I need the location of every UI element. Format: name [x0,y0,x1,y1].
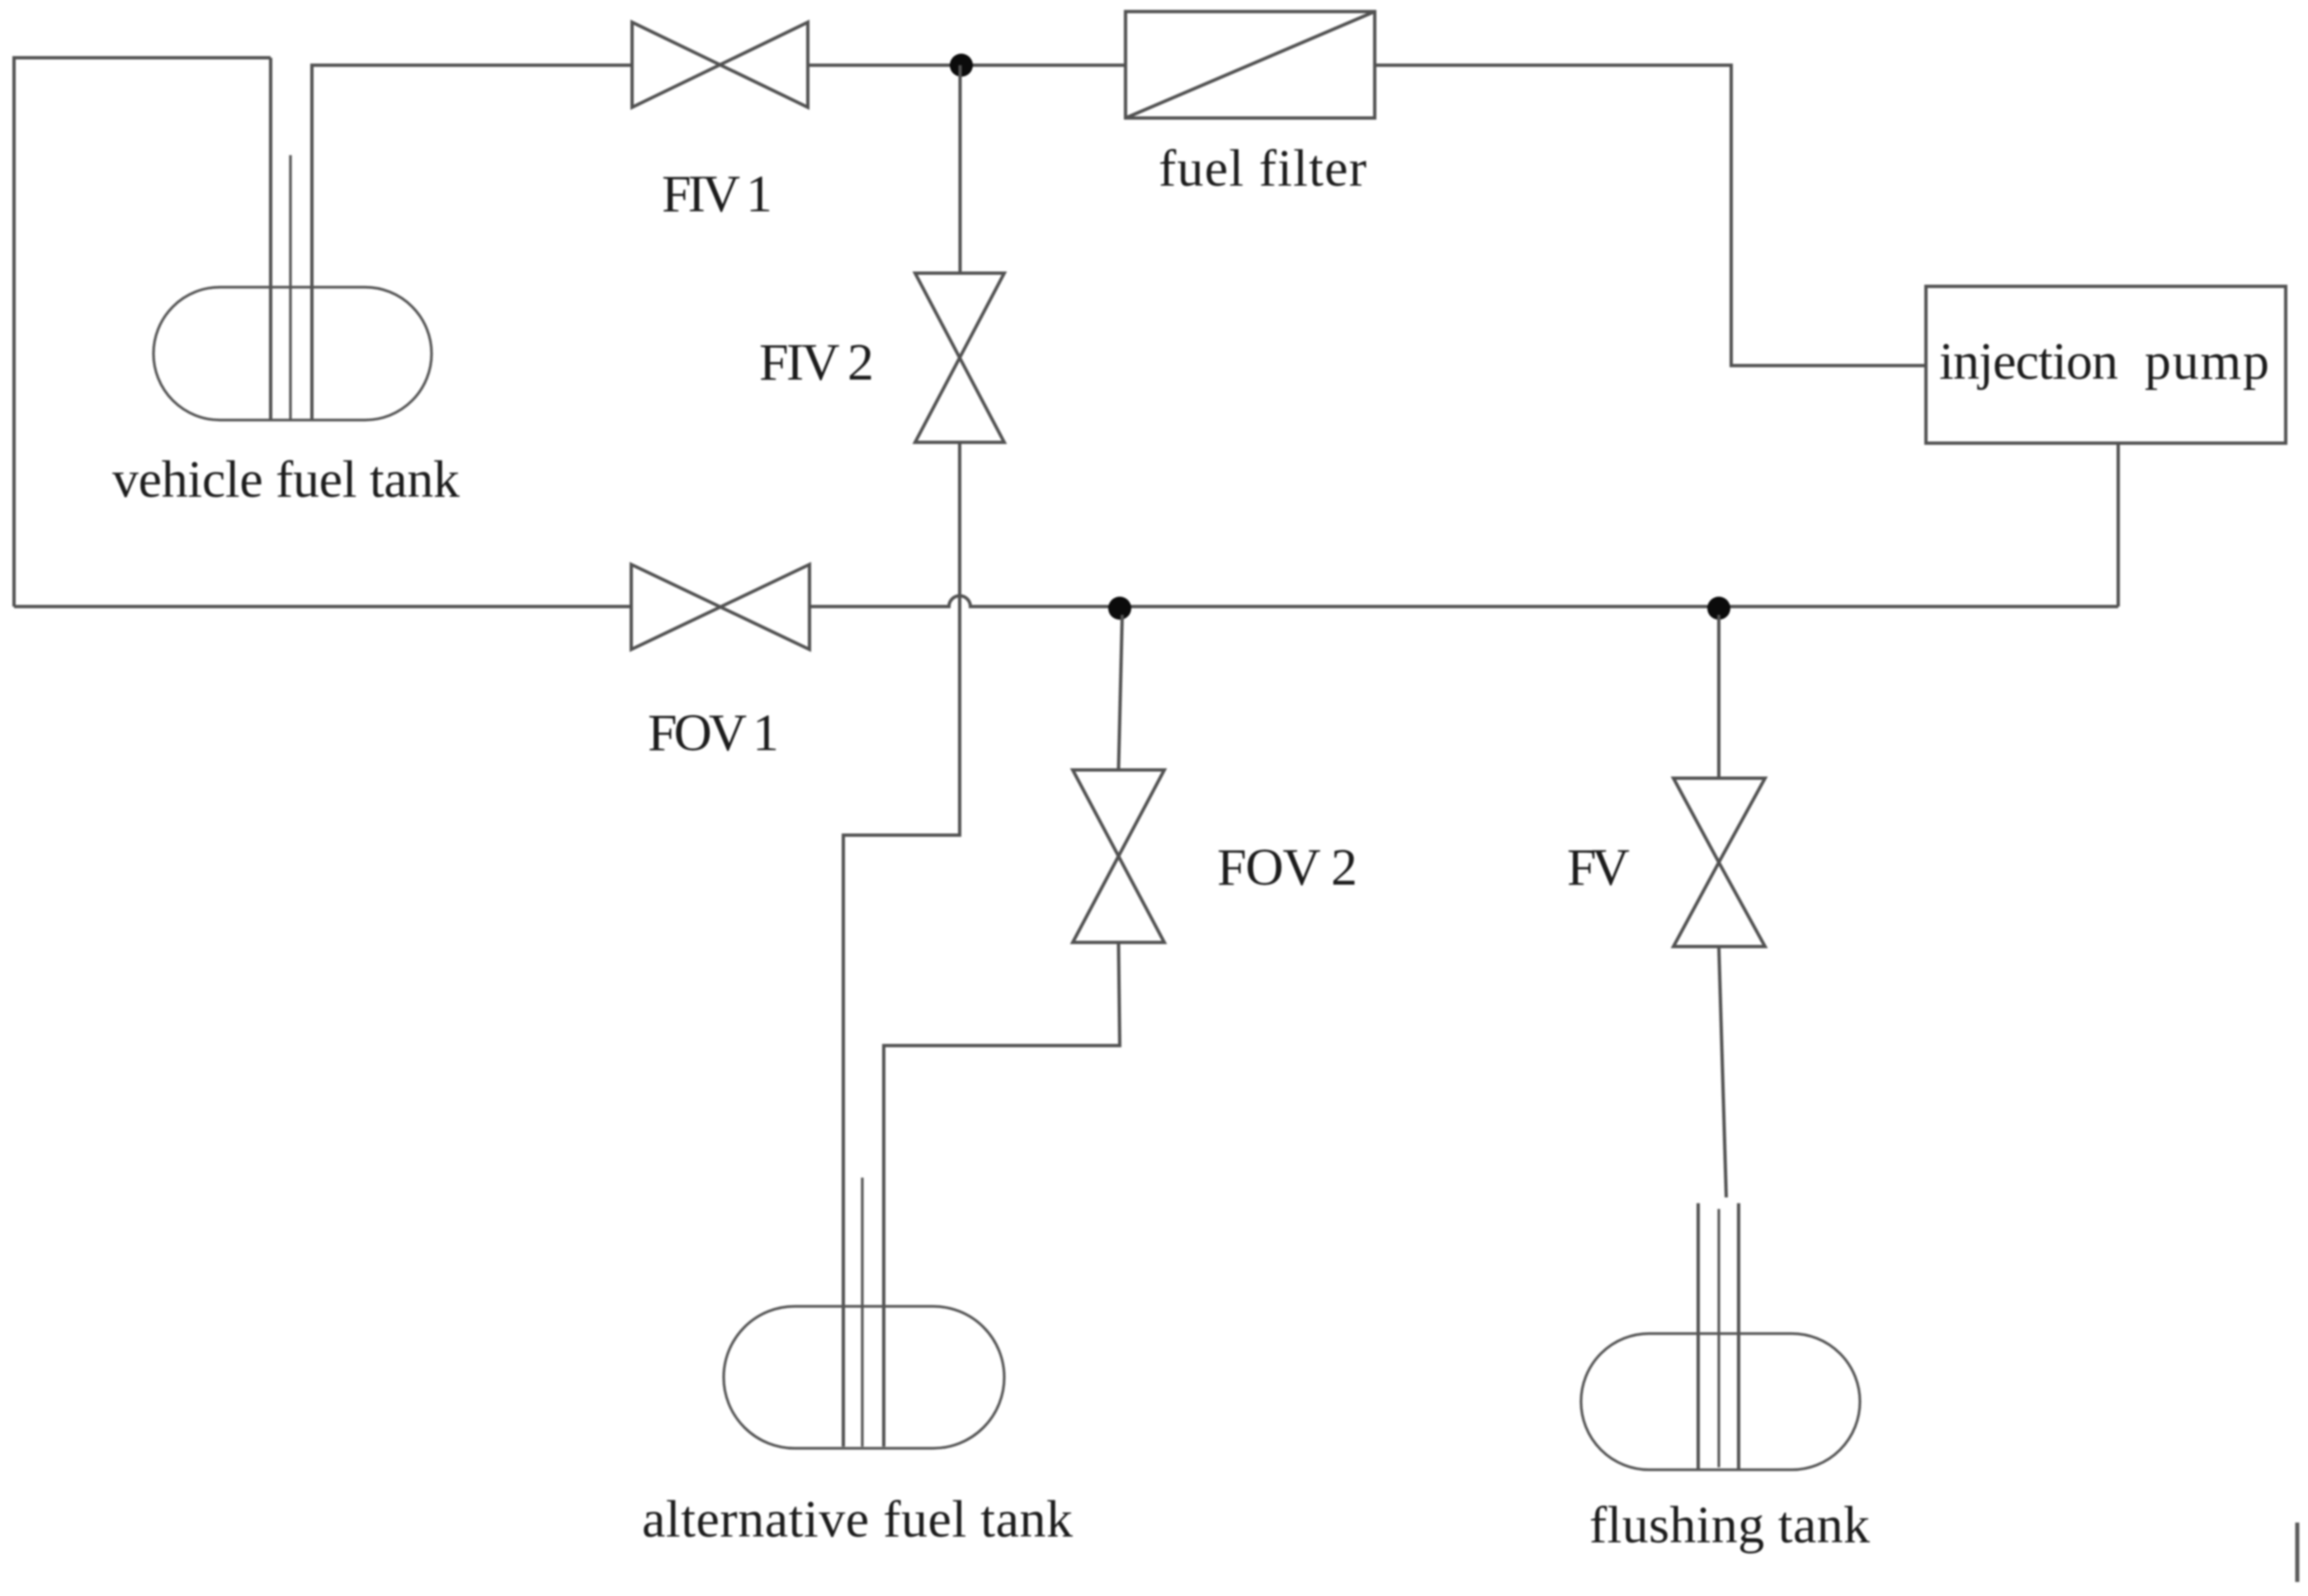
svg-text:vehicle fuel tank: vehicle fuel tank [112,450,460,508]
svg-text:alternative fuel tank: alternative fuel tank [642,1490,1073,1548]
svg-text:injection: injection [1939,332,2118,390]
svg-text:FOV 2: FOV 2 [1217,838,1357,896]
svg-text:FOV 1: FOV 1 [648,703,779,762]
svg-text:FV: FV [1567,838,1630,896]
svg-text:fuel filter: fuel filter [1159,139,1366,197]
svg-text:FIV 1: FIV 1 [662,164,772,223]
svg-text:flushing tank: flushing tank [1589,1495,1870,1554]
svg-text:pump: pump [2145,332,2269,390]
svg-text:FIV 2: FIV 2 [759,333,874,391]
